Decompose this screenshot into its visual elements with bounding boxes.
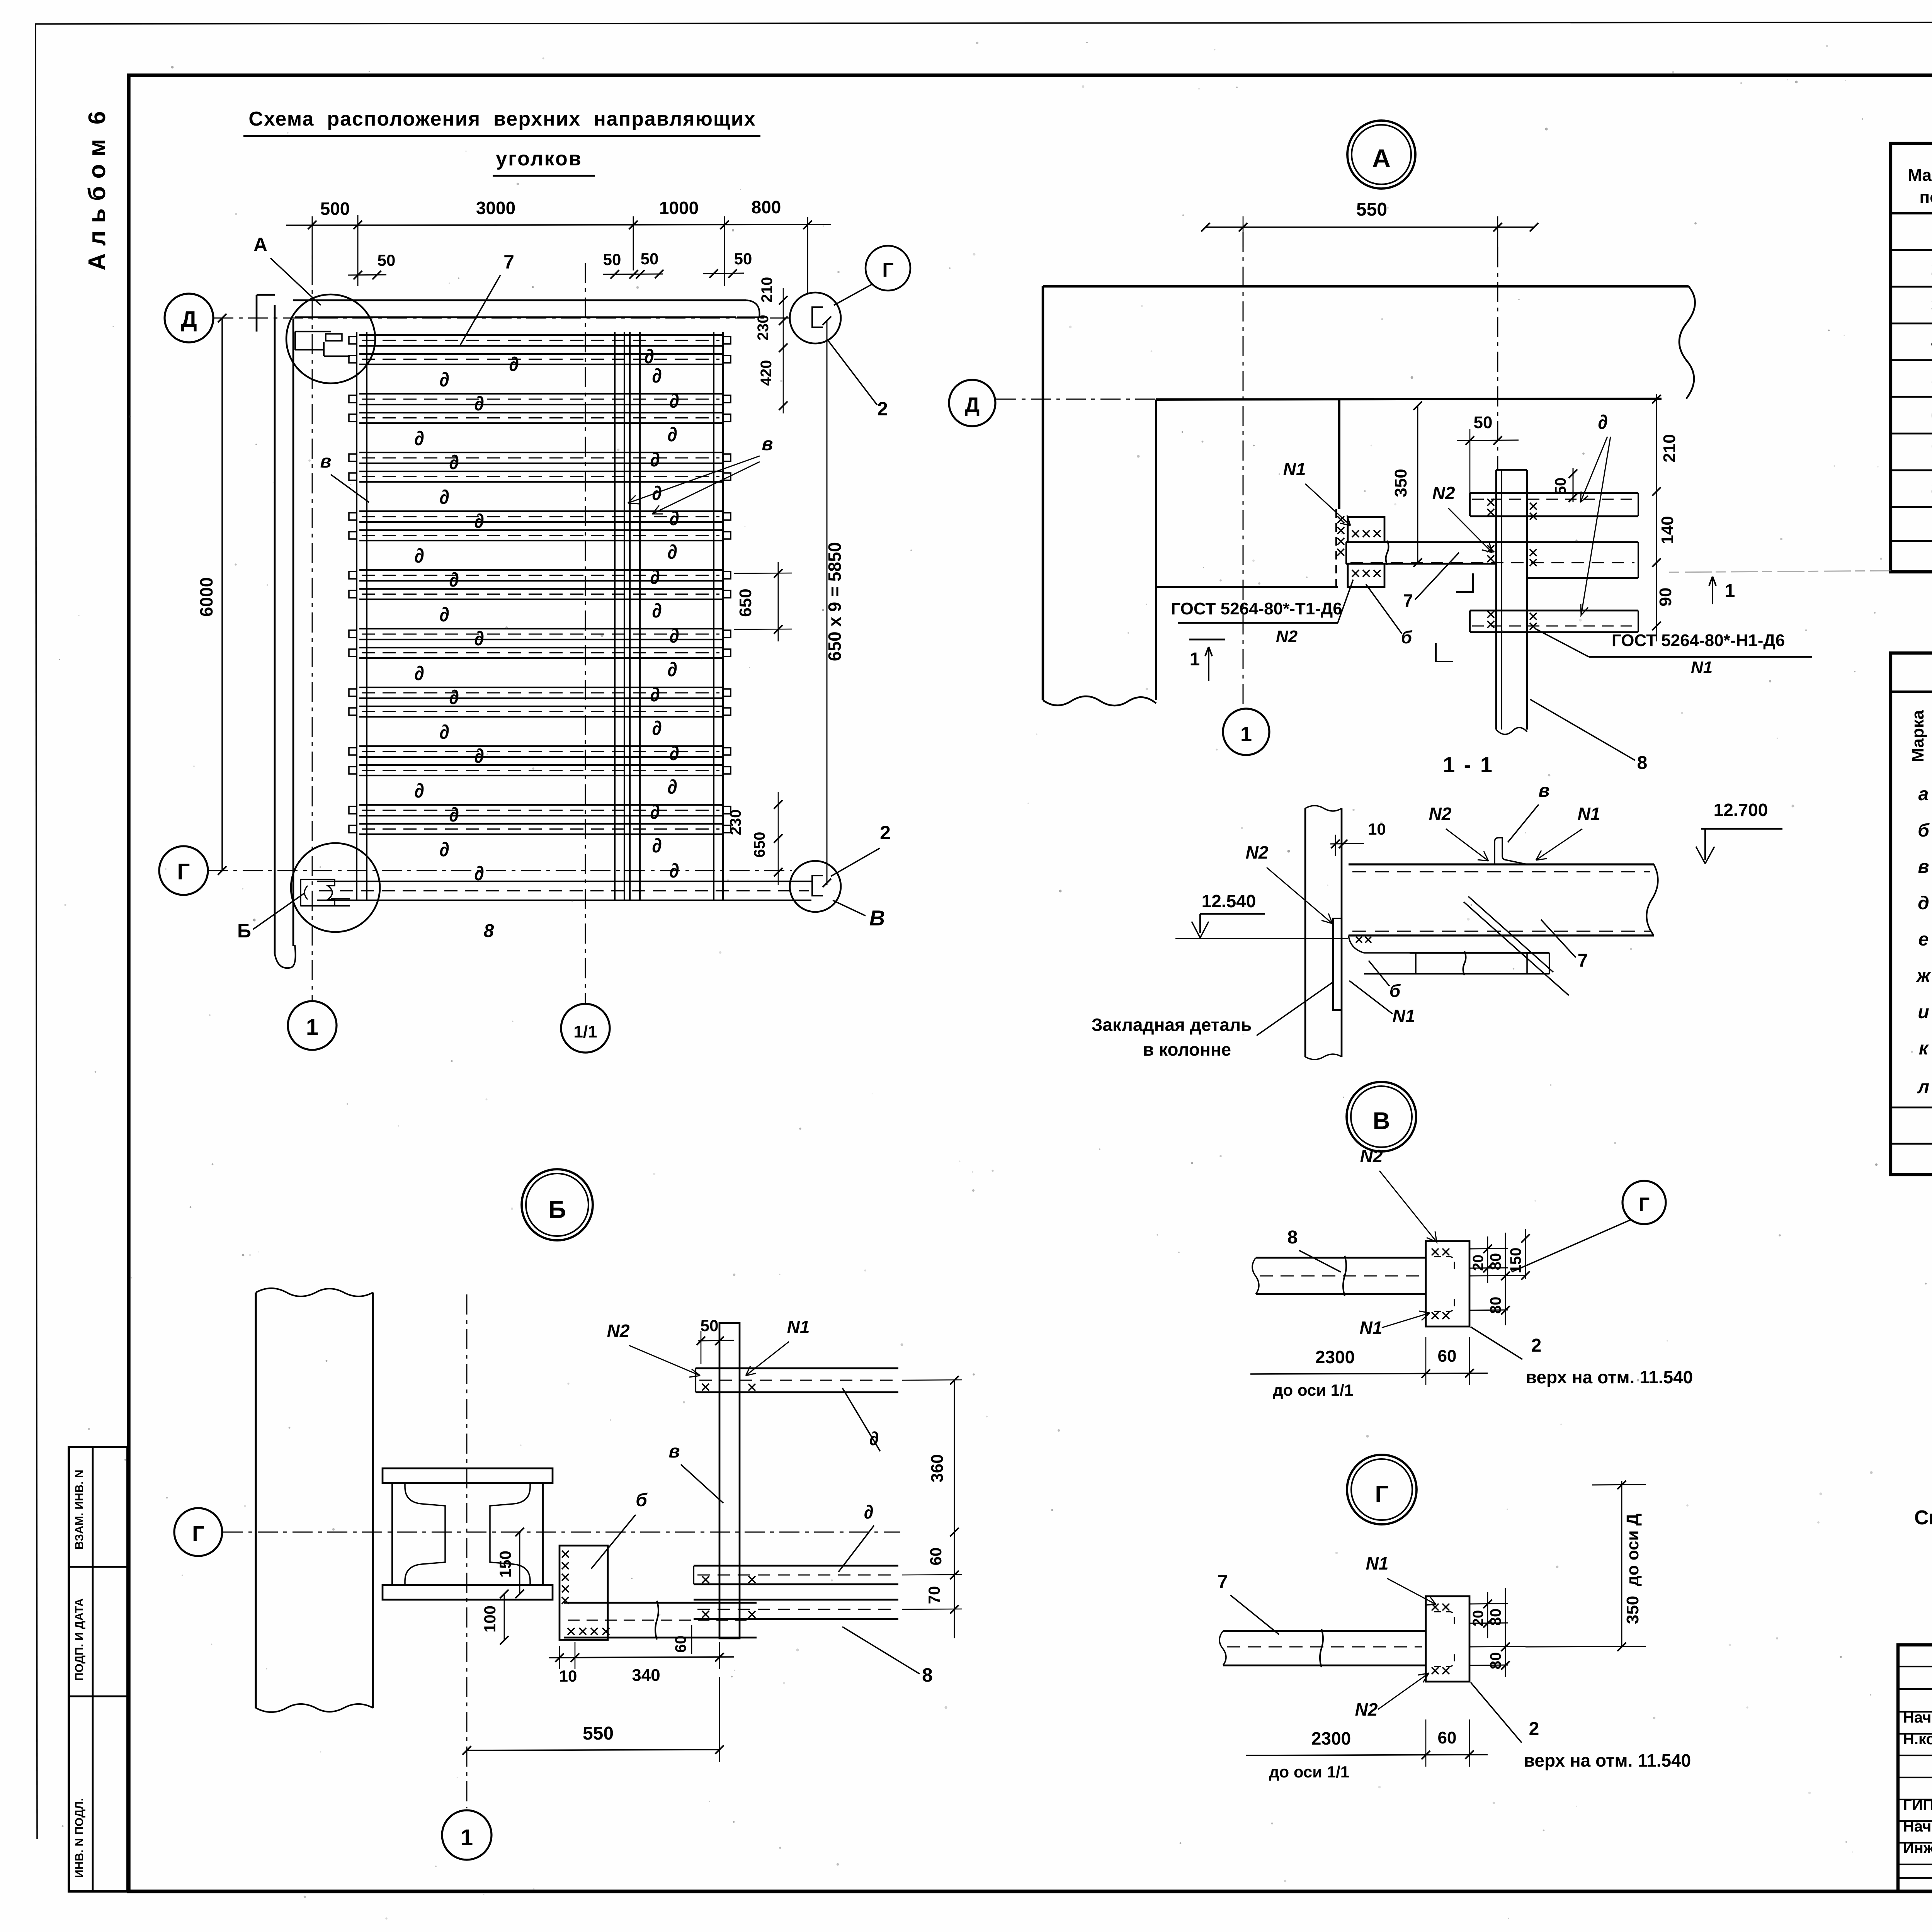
- svg-text:3000: 3000: [476, 198, 515, 218]
- node В label N2: [1349, 1146, 1437, 1242]
- node A right dim chain 210 140 90: [1652, 394, 1679, 641]
- section 1-1 small angle on beam top: [1495, 838, 1527, 864]
- svg-text:Д: Д: [181, 307, 197, 332]
- svg-text:N1: N1: [787, 1317, 810, 1337]
- vedomost title box: [1891, 653, 1932, 1175]
- plan: top right small dims 210 230 420: [755, 277, 787, 413]
- node A label 8: [1530, 699, 1647, 773]
- svg-text:∂: ∂: [864, 1501, 874, 1523]
- svg-text:420: 420: [758, 360, 775, 386]
- vedomost rows: [1891, 784, 1932, 1144]
- svg-text:∂: ∂: [1598, 411, 1608, 434]
- node Б mid beams right: [694, 1566, 898, 1584]
- svg-text:1: 1: [306, 1015, 318, 1040]
- node Б axis Г circle: [174, 1508, 900, 1556]
- svg-text:е: е: [1918, 929, 1929, 950]
- svg-text:∂: ∂: [669, 507, 679, 530]
- svg-text:7: 7: [1578, 951, 1588, 971]
- plan: axis Г circle: [159, 846, 208, 895]
- svg-text:N1: N1: [1366, 1553, 1389, 1573]
- svg-text:8: 8: [1287, 1227, 1298, 1248]
- svg-text:N1: N1: [1691, 658, 1713, 677]
- section 1-1 label N1 top: [1536, 804, 1615, 860]
- svg-text:2: 2: [880, 822, 891, 844]
- svg-text:50: 50: [378, 251, 396, 269]
- svg-text:N1: N1: [1578, 804, 1600, 824]
- node В note верх: [1471, 1327, 1716, 1387]
- svg-text:800: 800: [752, 197, 781, 217]
- section 1-1 bottom angle б: [1349, 935, 1549, 975]
- svg-text:верх на отм. 11.540: верх на отм. 11.540: [1526, 1367, 1693, 1387]
- svg-text:N1: N1: [1393, 1006, 1415, 1026]
- svg-text:∂: ∂: [667, 541, 677, 563]
- svg-text:550: 550: [1356, 199, 1387, 220]
- svg-text:∂: ∂: [414, 545, 424, 567]
- node A label N1: [1271, 459, 1350, 526]
- node В label 8: [1287, 1227, 1341, 1272]
- svg-text:50: 50: [1552, 478, 1569, 495]
- svg-text:1 - 1: 1 - 1: [1443, 752, 1494, 777]
- svg-text:в: в: [1918, 857, 1929, 877]
- svg-text:8: 8: [1637, 753, 1648, 773]
- svg-text:N2: N2: [1432, 483, 1455, 503]
- node A label б: [1366, 584, 1413, 647]
- plan: axis Г line: [208, 870, 792, 871]
- node A label N2 mid: [1432, 483, 1492, 553]
- svg-text:д: д: [1918, 893, 1929, 913]
- plan: left rail: [357, 332, 367, 900]
- svg-text:100: 100: [481, 1605, 499, 1633]
- svg-text:∂: ∂: [669, 742, 679, 765]
- node Б label б: [591, 1490, 648, 1569]
- node A band3 bottom right: [1470, 611, 1638, 632]
- plan: bottom-left joint parts (channel): [301, 879, 350, 906]
- node A section arrow right: [1709, 577, 1735, 604]
- svg-text:∂: ∂: [652, 835, 662, 857]
- svg-text:в: в: [1539, 781, 1550, 801]
- plan: beam rows: [349, 335, 731, 834]
- node A dim 50 top: [1457, 413, 1519, 497]
- svg-text:уголков: уголков: [496, 148, 582, 170]
- node A axis 1 vertical: [1243, 232, 1244, 705]
- svg-text:1: 1: [1725, 581, 1735, 601]
- title block frame: [1898, 1645, 1932, 1893]
- svg-text:∂: ∂: [669, 860, 679, 882]
- svg-text:230: 230: [755, 315, 772, 341]
- plan: label 2 bottom-right leader: [831, 822, 891, 876]
- svg-text:∂: ∂: [650, 449, 660, 471]
- svg-text:∂: ∂: [667, 658, 677, 681]
- svg-text:8: 8: [484, 921, 494, 941]
- svg-text:8: 8: [922, 1664, 933, 1686]
- title block left rows: [1898, 1667, 1932, 1878]
- plan: axis 1/1 line: [585, 263, 586, 1003]
- svg-text:ИНВ. N ПОДЛ.: ИНВ. N ПОДЛ.: [73, 1798, 86, 1878]
- svg-text:∂: ∂: [439, 369, 449, 391]
- svg-text:1/1: 1/1: [573, 1022, 597, 1041]
- plan: label В bottom-right: [833, 900, 885, 930]
- node Б label 8: [842, 1627, 933, 1686]
- node Б dim 550 bottom: [463, 1677, 724, 1762]
- node Г label 7: [1218, 1572, 1279, 1634]
- svg-text:340: 340: [632, 1666, 660, 1685]
- plan: axis 1 line: [312, 230, 313, 1001]
- svg-text:∂: ∂: [667, 776, 677, 798]
- svg-text:210: 210: [759, 277, 776, 303]
- node Г label N2: [1343, 1673, 1429, 1723]
- svg-text:ж: ж: [1915, 966, 1931, 986]
- svg-text:В: В: [869, 906, 885, 930]
- node A upper weld plate: [1348, 517, 1384, 542]
- svg-text:ГОСТ 5264-80*-Т1-Д6: ГОСТ 5264-80*-Т1-Д6: [1171, 599, 1342, 618]
- svg-text:7: 7: [1403, 590, 1413, 611]
- svg-text:80: 80: [1487, 1652, 1504, 1670]
- svg-text:ГОСТ 5264-80*-Н1-Д6: ГОСТ 5264-80*-Н1-Д6: [1612, 631, 1785, 650]
- node Б label д right mid: [838, 1501, 874, 1572]
- node Б label в: [669, 1441, 724, 1503]
- node A dim 550: [1201, 199, 1538, 247]
- plan: label в leaders mid: [628, 434, 773, 514]
- svg-text:2300: 2300: [1311, 1728, 1351, 1748]
- svg-text:Нач. гр.: Нач. гр.: [1903, 1818, 1932, 1835]
- svg-text:Марка,: Марка,: [1908, 166, 1932, 185]
- node В marker circle: [1347, 1082, 1416, 1151]
- svg-text:150: 150: [1507, 1248, 1524, 1274]
- svg-text:7: 7: [503, 251, 514, 273]
- svg-text:Закладная деталь: Закладная деталь: [1092, 1015, 1252, 1035]
- node A dim 50 rotated on band1: [1552, 468, 1577, 502]
- node Б axis 1 circle: [442, 1810, 492, 1860]
- svg-text:л: л: [1917, 1077, 1929, 1097]
- svg-text:Г: Г: [192, 1521, 204, 1546]
- plan: right rail: [714, 332, 723, 900]
- svg-text:Д: Д: [965, 393, 980, 417]
- svg-text:2300: 2300: [1315, 1347, 1355, 1367]
- svg-text:б: б: [636, 1490, 648, 1510]
- title block signatures: [1903, 1708, 1932, 1857]
- spec table headers: [1908, 161, 1932, 207]
- svg-text:10: 10: [559, 1667, 577, 1685]
- svg-text:∂: ∂: [669, 625, 679, 647]
- section 1-1 elevation 12.700: [1696, 800, 1782, 864]
- node Б dims 10 340 bottom: [549, 1642, 734, 1685]
- section 1-1 label б bottom: [1369, 961, 1417, 1004]
- svg-text:2: 2: [877, 398, 888, 420]
- node Б dim 50 top: [697, 1316, 734, 1364]
- svg-text:N2: N2: [1360, 1146, 1383, 1166]
- node Б axis 1 vertical: [466, 1294, 468, 1808]
- node A marker circle: [1347, 121, 1415, 189]
- node A beam7 weld x at plate: [1487, 545, 1537, 566]
- svg-text:∂: ∂: [439, 486, 449, 509]
- node Б marker circle: [522, 1169, 593, 1240]
- node Б bottom horizontal bar: [564, 1601, 757, 1639]
- svg-text:∂: ∂: [509, 353, 519, 376]
- svg-text:N2: N2: [1276, 627, 1298, 646]
- svg-text:90: 90: [1656, 588, 1675, 607]
- plan: axis 1 circle: [288, 1001, 337, 1050]
- plan: label 2 top-right leader: [828, 340, 888, 420]
- node A beam 7 band: [1346, 541, 1638, 578]
- svg-text:∂: ∂: [414, 662, 424, 685]
- node Г beam 7: [1219, 1629, 1426, 1667]
- plan: label 7 leader: [460, 251, 533, 346]
- svg-text:550: 550: [583, 1723, 614, 1744]
- svg-text:А: А: [253, 234, 267, 255]
- plan: axis Г label top-right: [834, 246, 910, 305]
- plan: mid rails: [615, 332, 640, 900]
- svg-text:а: а: [1918, 784, 1929, 804]
- svg-text:Нач.отд.: Нач.отд.: [1903, 1709, 1932, 1726]
- spec table data: [1931, 222, 1932, 499]
- node В beam 8: [1252, 1256, 1426, 1296]
- svg-text:Г: Г: [177, 859, 190, 884]
- section 1-1 diagonal brace: [1464, 896, 1569, 995]
- svg-text:50: 50: [734, 250, 752, 268]
- node Г marker circle: [1347, 1455, 1417, 1524]
- svg-text:60: 60: [1438, 1347, 1457, 1366]
- plan: left dim 6000: [196, 314, 226, 875]
- plan: д item labels: [414, 345, 679, 885]
- svg-text:N2: N2: [1246, 842, 1269, 862]
- svg-text:∂: ∂: [449, 686, 459, 709]
- svg-text:Марка: Марка: [1908, 710, 1927, 762]
- node A axis 1 circle: [1223, 709, 1269, 755]
- svg-text:50: 50: [641, 250, 659, 268]
- svg-text:60: 60: [1438, 1728, 1457, 1747]
- svg-text:∂: ∂: [652, 600, 662, 622]
- node A dashed weld edge on column face: [1336, 509, 1344, 587]
- svg-text:1: 1: [1240, 723, 1252, 746]
- svg-text:поз.: поз.: [1920, 188, 1932, 207]
- plan: axis 1/1 circle: [561, 1004, 610, 1053]
- svg-text:Г: Г: [1375, 1481, 1388, 1508]
- section 1-1 dim 10: [1330, 820, 1386, 856]
- svg-text:б: б: [1918, 820, 1930, 841]
- node В right dims 20 80 80 150: [1469, 1229, 1530, 1325]
- svg-text:650 x 9 = 5850: 650 x 9 = 5850: [825, 542, 845, 661]
- svg-text:∂: ∂: [439, 604, 449, 626]
- svg-text:б: б: [1401, 627, 1413, 647]
- svg-text:∂: ∂: [474, 393, 484, 415]
- section 1-1 label N2 top: [1418, 804, 1488, 861]
- plan: top beam 7 band: [293, 300, 760, 317]
- svg-text:80: 80: [1487, 1609, 1504, 1626]
- svg-text:∂: ∂: [474, 628, 484, 650]
- svg-text:в: в: [762, 434, 773, 454]
- node Г dim 2300: [1246, 1719, 1488, 1781]
- node Б channel section on column: [383, 1468, 553, 1600]
- plan: bottom right small dims 230 650: [727, 792, 782, 885]
- node Г end plate: [1426, 1596, 1469, 1682]
- node A label д with arrows: [1580, 411, 1611, 615]
- svg-text:∂: ∂: [474, 862, 484, 885]
- svg-text:1: 1: [461, 1825, 473, 1850]
- svg-text:ПОДП. И ДАТА: ПОДП. И ДАТА: [73, 1598, 86, 1681]
- svg-text:∂: ∂: [449, 569, 459, 591]
- svg-text:А: А: [1372, 144, 1391, 172]
- svg-text:∂: ∂: [650, 801, 660, 823]
- svg-text:ГИПстр.: ГИПстр.: [1903, 1796, 1932, 1813]
- node A band1 top right: [1470, 493, 1638, 520]
- plan: axis Д line: [213, 318, 792, 319]
- svg-text:в колонне: в колонне: [1143, 1039, 1231, 1060]
- svg-text:В: В: [1373, 1108, 1390, 1134]
- node Б column: [256, 1288, 373, 1712]
- svg-text:Г: Г: [1639, 1194, 1650, 1215]
- node A dim 350: [1391, 401, 1422, 567]
- svg-text:350: 350: [1391, 469, 1410, 497]
- svg-text:350 до оси Д: 350 до оси Д: [1623, 1514, 1642, 1624]
- node Б vertical plate в: [719, 1323, 740, 1638]
- svg-text:в: в: [320, 451, 332, 472]
- spec table grid: [1891, 143, 1932, 572]
- svg-text:Схема расположения верхних: Схема расположения верхних направляющих: [248, 108, 756, 130]
- svg-text:∂: ∂: [414, 427, 424, 450]
- svg-text:См. вместе с КМ - 9: См. вместе с КМ - 9: [1914, 1507, 1932, 1529]
- svg-text:650: 650: [736, 588, 755, 617]
- node Г note верх: [1471, 1682, 1716, 1770]
- node A vertical plate в: [1496, 470, 1527, 735]
- svg-text:N2: N2: [1355, 1699, 1378, 1719]
- svg-text:2: 2: [1529, 1719, 1539, 1739]
- plan: bottom beam 8 band: [317, 881, 811, 941]
- svg-text:N1: N1: [1360, 1318, 1383, 1338]
- node A concrete chord and leg: [1043, 286, 1695, 706]
- svg-text:верх на отм. 11.540: верх на отм. 11.540: [1524, 1750, 1691, 1770]
- svg-text:∂: ∂: [652, 717, 662, 740]
- svg-text:50: 50: [1474, 413, 1493, 432]
- node Б weld plate б: [560, 1546, 609, 1640]
- svg-text:∂: ∂: [439, 721, 449, 743]
- node Б right side dims 360 60 70: [902, 1376, 962, 1638]
- svg-text:N2: N2: [607, 1321, 630, 1341]
- svg-text:∂: ∂: [414, 780, 424, 802]
- svg-text:N1: N1: [1283, 459, 1306, 479]
- faint scan line artifact: [1669, 571, 1891, 572]
- svg-text:∂: ∂: [669, 390, 679, 412]
- svg-text:∂: ∂: [449, 451, 459, 474]
- svg-text:80: 80: [1487, 1297, 1504, 1314]
- plan: axis Д circle: [165, 294, 213, 342]
- section 1-1 закладная text: [1090, 981, 1334, 1060]
- svg-text:12.540: 12.540: [1202, 891, 1256, 911]
- node Г label N1: [1354, 1553, 1436, 1605]
- svg-text:60: 60: [927, 1548, 945, 1566]
- node A section marks: [1189, 639, 1225, 681]
- svg-text:1: 1: [1190, 649, 1200, 670]
- svg-text:∂: ∂: [652, 365, 662, 387]
- svg-text:360: 360: [928, 1454, 947, 1482]
- svg-text:1000: 1000: [659, 198, 699, 218]
- node В dim 2300: [1250, 1337, 1488, 1399]
- svg-text:7: 7: [1218, 1572, 1228, 1592]
- svg-text:210: 210: [1660, 434, 1679, 462]
- node Г right dims 20 80 80: [1469, 1588, 1526, 1677]
- node Б dims 150 100: [410, 1528, 541, 1645]
- node Б label д top right: [842, 1388, 880, 1451]
- svg-text:10: 10: [1368, 820, 1386, 838]
- svg-text:∂: ∂: [474, 745, 484, 767]
- svg-text:∂: ∂: [644, 345, 654, 368]
- node A axis В vertical: [1497, 247, 1498, 470]
- svg-text:70: 70: [925, 1586, 943, 1604]
- plan: top dimension chain: [286, 197, 831, 294]
- svg-text:Инж.Зкат.: Инж.Зкат.: [1903, 1840, 1932, 1857]
- svg-text:∂: ∂: [650, 566, 660, 588]
- svg-text:N2: N2: [1429, 804, 1452, 824]
- svg-text:до оси 1/1: до оси 1/1: [1273, 1381, 1353, 1399]
- plan: right dim 650 and 650x9: [734, 316, 845, 887]
- svg-text:12.700: 12.700: [1714, 800, 1768, 820]
- main schema title: [243, 108, 760, 176]
- plan: label A leader: [247, 234, 321, 305]
- svg-text:∂: ∂: [449, 804, 459, 826]
- svg-text:Б: Б: [237, 920, 251, 942]
- svg-text:230: 230: [727, 810, 744, 835]
- svg-text:50: 50: [603, 250, 621, 269]
- svg-text:6000: 6000: [196, 577, 216, 617]
- svg-text:500: 500: [320, 199, 350, 219]
- svg-text:50: 50: [701, 1316, 719, 1335]
- svg-text:б: б: [1389, 981, 1401, 1001]
- svg-text:140: 140: [1658, 516, 1677, 544]
- svg-text:Н.контр.: Н.контр.: [1903, 1731, 1932, 1748]
- section 1-1 label в top: [1508, 781, 1565, 842]
- section 1-1 elevation 12.540: [1175, 891, 1348, 939]
- node A axis Д circle: [949, 380, 1157, 426]
- plan: node Б big circle (bottom-left joint): [291, 843, 380, 932]
- plan: label в leader left: [320, 451, 369, 502]
- node В circle Г leader: [1513, 1181, 1666, 1271]
- svg-text:∂: ∂: [650, 684, 660, 706]
- svg-text:20: 20: [1470, 1610, 1486, 1626]
- section 1-1 embedded plate: [1333, 918, 1342, 1010]
- node Б labels N2 N1 top: [591, 1321, 700, 1377]
- vedomost headers: [1908, 702, 1932, 772]
- node A GOST T1 text: [1171, 580, 1353, 646]
- section 1-1 beam 7: [1349, 864, 1658, 935]
- svg-text:20: 20: [1470, 1255, 1486, 1271]
- svg-text:ВЗАМ. ИНВ. N: ВЗАМ. ИНВ. N: [73, 1469, 86, 1549]
- node Б dim 60: [672, 1625, 692, 1654]
- svg-text:А л ь б о м 6: А л ь б о м 6: [84, 111, 111, 270]
- plan: top-left joint parts: [295, 332, 350, 356]
- svg-text:150: 150: [496, 1551, 514, 1578]
- svg-text:Б: Б: [548, 1196, 566, 1223]
- plan: node A big circle: [286, 294, 375, 383]
- plan: concrete wall strip left: [257, 295, 296, 968]
- svg-text:в: в: [669, 1441, 680, 1462]
- plan: 50 sub-dims: [348, 250, 752, 279]
- svg-text:к: к: [1919, 1038, 1929, 1059]
- node A label 7: [1387, 553, 1459, 614]
- svg-text:и: и: [1918, 1002, 1929, 1022]
- svg-text:∂: ∂: [667, 423, 677, 446]
- node Б top beam д: [696, 1368, 898, 1392]
- plan: label Б leader: [228, 893, 305, 945]
- svg-text:∂: ∂: [439, 838, 449, 861]
- section 1-1 label N2 plate: [1235, 842, 1332, 923]
- section 1-1 label N1 bottom: [1349, 981, 1430, 1029]
- section 1-1 label 7: [1541, 920, 1607, 974]
- node A GOST H1 text: [1536, 629, 1812, 677]
- plan: right end joint circles: [790, 293, 841, 344]
- svg-text:60: 60: [672, 1636, 689, 1653]
- node В label N1: [1348, 1311, 1430, 1341]
- node Г dim 350 до оси Д: [1526, 1481, 1646, 1651]
- node В end plate: [1426, 1241, 1469, 1327]
